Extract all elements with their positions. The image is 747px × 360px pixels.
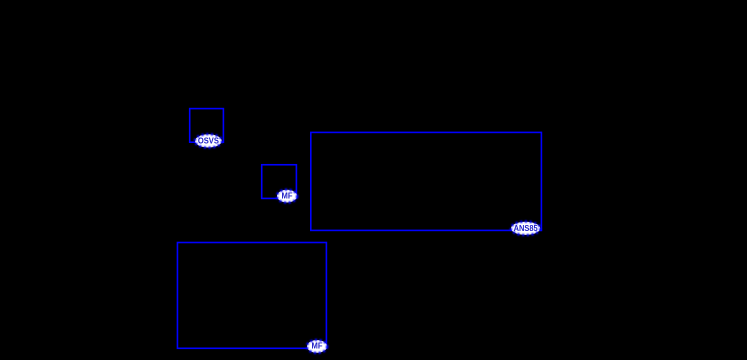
- label ANS85: [511, 222, 541, 236]
- box ANS85: [311, 132, 542, 230]
- label MF large: [307, 340, 327, 353]
- svg-text:MF: MF: [282, 191, 293, 201]
- label MF small: [277, 190, 297, 203]
- svg-text:OSVS: OSVS: [198, 135, 219, 145]
- svg-text:MF: MF: [312, 341, 323, 351]
- box MF small: [262, 165, 297, 199]
- box OSVS: [190, 109, 224, 143]
- svg-text:ANS85: ANS85: [514, 223, 538, 233]
- box MF large: [177, 243, 326, 349]
- label OSVS: [195, 134, 222, 148]
